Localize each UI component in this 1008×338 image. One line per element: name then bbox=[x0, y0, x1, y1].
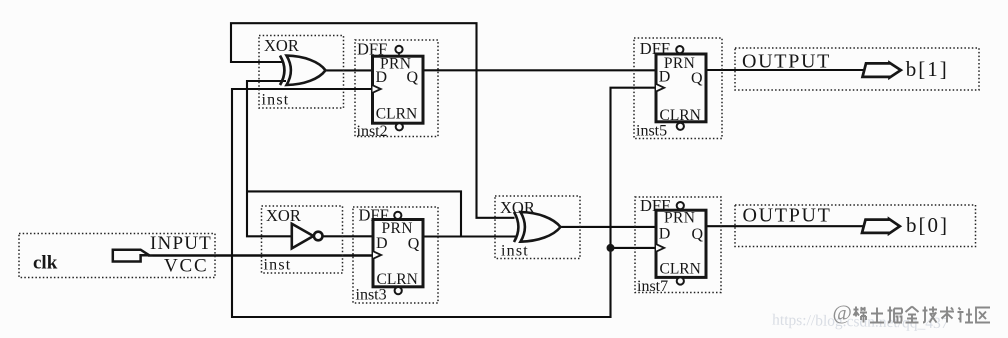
output pin b[1] bbox=[735, 48, 979, 90]
svg-text:Q: Q bbox=[692, 226, 704, 243]
glyph she bbox=[958, 308, 974, 323]
XOR gate input arc bbox=[280, 56, 284, 85]
svg-text:Q: Q bbox=[407, 69, 419, 86]
wire Q of inst3 to middle XOR input bbox=[423, 235, 516, 237]
pin CLRN stem bbox=[679, 122, 681, 127]
XOR gate U1 inst (top) bbox=[259, 36, 344, 109]
DFF inst7 bbox=[635, 196, 721, 295]
DFF inst5 boundary box bbox=[634, 38, 722, 139]
DFF inst2 boundary box bbox=[355, 40, 438, 137]
DFF inst2 bbox=[355, 40, 438, 140]
pin PRN stem bbox=[397, 219, 399, 222]
wire XOR inst output to D of inst2 bbox=[324, 69, 373, 71]
output boundary box bbox=[735, 48, 979, 90]
glyph xi bbox=[854, 307, 868, 323]
DFF inst7 boundary box bbox=[635, 197, 721, 293]
svg-text:OUTPUT: OUTPUT bbox=[742, 51, 831, 73]
wire Q of inst2 to D of inst5 bbox=[423, 69, 656, 71]
pin PRN stem bbox=[679, 53, 681, 56]
wire Q of inst7 to output b[0] bbox=[705, 225, 864, 227]
pin CLRN stem bbox=[397, 286, 399, 290]
pin PRN bubble bbox=[677, 202, 684, 209]
svg-text:b[1]: b[1] bbox=[906, 57, 949, 81]
DFF inst5 body bbox=[656, 54, 706, 122]
inverter triangle bbox=[292, 224, 314, 249]
DFF inst5 bbox=[634, 38, 722, 140]
svg-text:PRN: PRN bbox=[664, 209, 695, 226]
svg-text:@: @ bbox=[833, 301, 852, 325]
pin CLRN stem bbox=[398, 123, 400, 127]
svg-text:clk: clk bbox=[33, 252, 58, 273]
glyph jue bbox=[888, 307, 903, 323]
DFF inst3 body bbox=[373, 220, 423, 287]
svg-text:inst: inst bbox=[262, 92, 290, 109]
svg-text:D: D bbox=[376, 69, 388, 86]
junction dot clock node bbox=[607, 244, 615, 252]
glyph shu bbox=[940, 307, 954, 323]
DFF inst3 bbox=[353, 205, 438, 303]
XOR gate body bbox=[287, 56, 326, 85]
pin CLRN bubble bbox=[395, 287, 402, 294]
pin PRN stem bbox=[398, 53, 400, 57]
XOR symbol boundary box bbox=[495, 196, 580, 259]
output pin b[0] bbox=[735, 205, 976, 247]
svg-text:CLRN: CLRN bbox=[376, 106, 417, 123]
svg-text:inst: inst bbox=[264, 257, 292, 274]
input pin clk bbox=[19, 233, 215, 278]
output pin arrow symbol bbox=[862, 219, 900, 234]
svg-text:CLRN: CLRN bbox=[660, 261, 701, 278]
output pin arrow symbol bbox=[863, 63, 901, 78]
pin PRN stem bbox=[679, 209, 681, 212]
pin CLRN bubble bbox=[677, 277, 684, 284]
XOR gate input arc bbox=[514, 212, 518, 242]
svg-text:OUTPUT: OUTPUT bbox=[743, 205, 832, 227]
XOR symbol boundary box bbox=[259, 36, 344, 109]
DFF inst3 boundary box bbox=[353, 207, 438, 303]
svg-text:INPUT: INPUT bbox=[150, 233, 212, 254]
clock pin triangle bbox=[373, 251, 381, 259]
watermark juejin bbox=[833, 301, 991, 325]
clock pin triangle bbox=[656, 84, 664, 92]
wire clock distribution rail bbox=[232, 88, 656, 317]
wire tap from Q3 line up to node bbox=[247, 191, 461, 236]
wire inverter output to D of inst3 bbox=[323, 235, 373, 237]
svg-text:VCC: VCC bbox=[164, 256, 208, 277]
pin CLRN stem bbox=[679, 277, 681, 281]
glyph tu bbox=[870, 308, 884, 323]
wire feedback loop to XOR inst top and XOR inst middle bbox=[231, 23, 515, 218]
svg-text:D: D bbox=[659, 69, 671, 86]
svg-text:inst2: inst2 bbox=[357, 123, 388, 140]
svg-text:D: D bbox=[659, 226, 671, 243]
XOR gate body bbox=[521, 212, 561, 242]
NOT symbol boundary box bbox=[262, 206, 343, 273]
svg-text:inst7: inst7 bbox=[637, 278, 668, 295]
svg-text:XOR: XOR bbox=[264, 36, 299, 55]
wire middle XOR output to D of inst7 bbox=[561, 226, 657, 228]
inverter bubble bbox=[314, 232, 323, 241]
svg-text:Q: Q bbox=[691, 70, 703, 87]
glyph qu bbox=[976, 308, 990, 323]
pin PRN bubble bbox=[395, 46, 402, 53]
svg-text:inst3: inst3 bbox=[356, 287, 387, 304]
clock pin triangle bbox=[656, 244, 664, 252]
DFF inst2 body bbox=[373, 56, 424, 123]
input boundary box bbox=[19, 234, 215, 278]
svg-text:inst5: inst5 bbox=[636, 123, 667, 140]
svg-text:inst: inst bbox=[501, 243, 529, 260]
output boundary box bbox=[735, 205, 976, 247]
glyph jin bbox=[906, 307, 919, 323]
svg-text:Q: Q bbox=[408, 236, 420, 253]
pin PRN bubble bbox=[676, 46, 683, 53]
input pin arrow symbol bbox=[113, 250, 149, 262]
DFF inst7 body bbox=[656, 210, 706, 277]
pin CLRN bubble bbox=[396, 123, 403, 130]
wire clock branch to DFF inst7 bbox=[611, 247, 657, 249]
XOR gate inst (middle) bbox=[495, 196, 580, 260]
wire node Q3 to XOR top input2 and inverter input bbox=[247, 81, 292, 236]
svg-text:CLRN: CLRN bbox=[377, 271, 418, 288]
glyph ji bbox=[923, 307, 938, 323]
wire Q of inst5 to output b[1] bbox=[705, 69, 864, 71]
svg-text:XOR: XOR bbox=[266, 206, 301, 225]
svg-text:b[0]: b[0] bbox=[906, 213, 949, 237]
XOR (inverter) inst bbox=[262, 206, 343, 274]
clock pin triangle bbox=[373, 85, 381, 93]
pin CLRN bubble bbox=[677, 123, 684, 130]
pin PRN bubble bbox=[394, 212, 401, 219]
wire clk input to DFF inst3 clock bbox=[148, 254, 373, 256]
svg-text:CLRN: CLRN bbox=[660, 107, 701, 124]
svg-text:D: D bbox=[376, 235, 388, 252]
